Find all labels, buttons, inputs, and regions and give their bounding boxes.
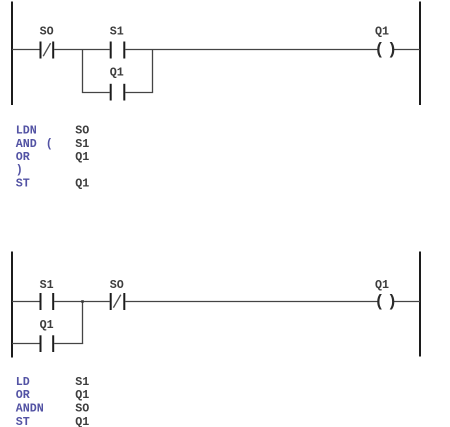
svg-text:S1: S1 <box>110 24 124 38</box>
svg-text:SO: SO <box>75 402 89 416</box>
svg-text:): ) <box>387 40 397 59</box>
svg-text:Q1: Q1 <box>75 415 89 427</box>
svg-text:(: ( <box>46 137 53 151</box>
svg-text:ANDN: ANDN <box>16 402 44 416</box>
svg-text:ST: ST <box>16 415 30 427</box>
svg-text:(: ( <box>375 292 385 311</box>
svg-text:Q1: Q1 <box>110 66 124 80</box>
svg-text:OR: OR <box>16 150 30 164</box>
svg-text:SO: SO <box>75 124 89 138</box>
svg-text:Q1: Q1 <box>75 150 89 164</box>
svg-text:ST: ST <box>16 176 30 190</box>
svg-text:S1: S1 <box>75 137 89 151</box>
svg-text:SO: SO <box>40 24 54 38</box>
svg-text:AND: AND <box>16 137 37 151</box>
svg-text:Q1: Q1 <box>75 388 89 402</box>
svg-text:Q1: Q1 <box>40 318 54 332</box>
svg-text:SO: SO <box>110 278 124 292</box>
svg-text:Q1: Q1 <box>375 278 389 292</box>
svg-text:LD: LD <box>16 375 30 389</box>
svg-text:S1: S1 <box>40 278 54 292</box>
svg-text:): ) <box>16 163 23 177</box>
svg-text:(: ( <box>375 40 385 59</box>
svg-text:Q1: Q1 <box>75 176 89 190</box>
svg-text:OR: OR <box>16 388 30 402</box>
svg-text:S1: S1 <box>75 375 89 389</box>
svg-text:Q1: Q1 <box>375 24 389 38</box>
svg-text:): ) <box>387 292 397 311</box>
svg-text:LDN: LDN <box>16 124 37 138</box>
